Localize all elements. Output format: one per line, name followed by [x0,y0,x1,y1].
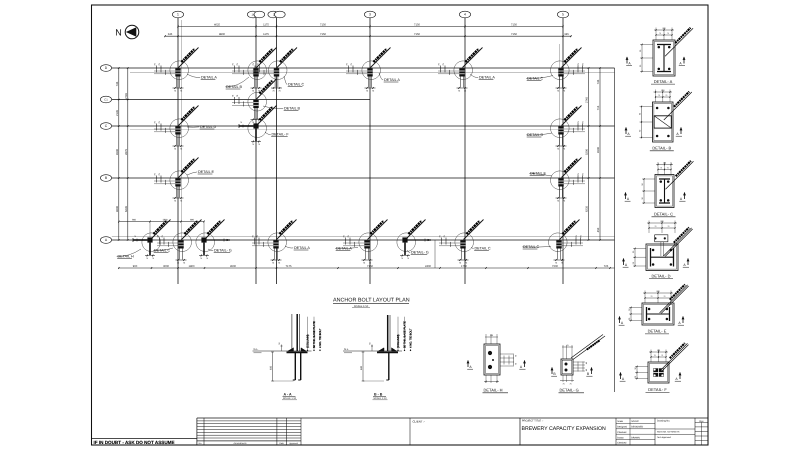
svg-text:SCALE 1:10: SCALE 1:10 [283,397,297,400]
svg-text:75: 75 [660,167,662,170]
svg-text:50 THK. BASE PLATE: 50 THK. BASE PLATE [404,321,407,348]
svg-text:4600: 4600 [116,206,119,212]
svg-text:DETAIL C: DETAIL C [475,247,492,251]
svg-text:1A: 1A [252,14,255,17]
svg-text:4 NO. TIE BOLT: 4 NO. TIE BOLT [410,328,413,348]
svg-text:745: 745 [597,79,600,84]
svg-text:No.: No. [199,442,203,445]
svg-text:3: 3 [369,13,371,17]
svg-text:75: 75 [407,257,409,260]
svg-text:600: 600 [269,365,272,370]
svg-text:75: 75 [667,32,669,35]
svg-text:4 NO. TIE BOLT: 4 NO. TIE BOLT [319,328,322,348]
svg-text:1800: 1800 [189,265,195,268]
svg-text:DETAIL- D: DETAIL- D [651,273,670,278]
svg-text:75: 75 [569,383,571,386]
svg-text:BREWERY CAPACITY EXPANSION: BREWERY CAPACITY EXPANSION [522,426,607,432]
svg-text:75: 75 [562,383,564,386]
svg-text:8800: 8800 [219,33,225,36]
svg-text:Tech Approved: Tech Approved [657,436,672,439]
svg-text:900: 900 [133,265,138,268]
svg-text:ANCHOR BOLT LAYOUT PLAN: ANCHOR BOLT LAYOUT PLAN [333,298,410,304]
svg-text:7150: 7150 [367,265,373,268]
svg-text:7150: 7150 [414,23,420,26]
svg-text:Scale: Scale [617,420,623,423]
svg-text:40: 40 [585,369,588,371]
svg-text:1: 1 [177,13,179,17]
svg-text:DETAIL D: DETAIL D [200,125,217,129]
svg-text:725: 725 [604,265,609,268]
svg-text:Checked: Checked [617,442,627,445]
svg-text:75: 75 [659,32,661,35]
svg-text:1175: 1175 [263,33,269,36]
svg-text:G.L.: G.L. [254,348,259,351]
svg-text:75: 75 [258,143,260,146]
svg-text:SCALE: SCALE [631,420,639,423]
svg-text:A - A: A - A [284,392,293,396]
svg-text:5: 5 [562,13,564,17]
svg-text:DESIGNED: DESIGNED [631,426,643,429]
svg-text:7200: 7200 [552,265,558,268]
svg-text:75: 75 [667,167,669,170]
svg-text:75: 75 [566,344,568,347]
svg-text:CLIENT :-: CLIENT :- [413,419,425,423]
svg-text:745: 745 [116,81,119,86]
svg-text:2400: 2400 [425,265,431,268]
svg-text:7150: 7150 [511,23,517,26]
svg-text:450: 450 [597,227,600,232]
svg-text:N: N [115,27,122,37]
svg-text:Drawn: Drawn [617,436,624,439]
svg-text:DETAIL- G: DETAIL- G [214,249,232,253]
svg-text:C1: C1 [104,99,108,102]
svg-text:Designed: Designed [617,426,627,429]
svg-text:75: 75 [152,257,154,260]
svg-text:DETAIL A: DETAIL A [479,76,495,80]
svg-text:7150: 7150 [414,33,420,36]
svg-text:(COLUMN): (COLUMN) [397,334,400,348]
svg-text:DETAIL A: DETAIL A [294,246,310,250]
svg-text:4500: 4500 [230,265,236,268]
svg-text:DETAIL- G: DETAIL- G [560,388,579,393]
svg-text:2745: 2745 [125,93,128,99]
svg-text:75: 75 [206,257,208,260]
svg-text:75: 75 [661,354,663,357]
svg-text:Drawing No.: Drawing No. [657,420,670,423]
svg-text:75: 75 [240,121,242,124]
svg-text:B - B: B - B [374,392,383,396]
svg-text:4500: 4500 [116,149,119,155]
svg-text:Sheet NO. NO-SHEETS: Sheet NO. NO-SHEETS [657,431,680,434]
svg-text:40: 40 [585,362,588,364]
svg-text:DETAIL E: DETAIL E [198,170,215,174]
svg-text:SCALE 1:50: SCALE 1:50 [354,305,369,308]
svg-text:75: 75 [654,354,656,357]
svg-text:7150: 7150 [320,23,326,26]
svg-text:6235: 6235 [125,206,128,212]
svg-text:DETAIL- F: DETAIL- F [648,387,667,392]
svg-text:50 THK. BASE PLATE: 50 THK. BASE PLATE [313,321,316,348]
svg-text:75: 75 [655,225,657,228]
svg-text:100: 100 [490,334,493,337]
svg-text:4: 4 [464,13,466,17]
svg-text:IF IN DOUBT - ASK DO NOT ASSUM: IF IN DOUBT - ASK DO NOT ASSUME [94,440,175,445]
svg-text:DETAIL B: DETAIL B [284,107,301,111]
svg-text:PROJECT TITLE :-: PROJECT TITLE :- [522,419,543,422]
svg-text:DETAIL- E: DETAIL- E [648,329,667,334]
svg-text:345: 345 [168,33,173,36]
svg-text:715: 715 [597,105,600,110]
svg-text:DETAIL- F: DETAIL- F [272,133,290,137]
svg-text:G.L.: G.L. [344,348,349,351]
svg-text:5200: 5200 [586,149,589,155]
svg-text:75: 75 [665,94,667,97]
svg-text:75: 75 [651,295,653,298]
svg-text:DETAIL- G: DETAIL- G [411,251,429,255]
svg-text:SCALE 1:10: SCALE 1:10 [373,397,387,400]
svg-text:DETAIL A: DETAIL A [201,76,217,80]
svg-text:3000: 3000 [163,265,169,268]
svg-text:6235: 6235 [586,206,589,212]
svg-text:2875: 2875 [125,149,128,155]
svg-text:DETAIL- C: DETAIL- C [654,212,673,217]
svg-text:1175: 1175 [263,23,269,26]
svg-text:345: 345 [564,33,569,36]
svg-text:DRAWN: DRAWN [631,436,640,439]
svg-text:DETAIL A: DETAIL A [384,78,400,82]
svg-text:2135: 2135 [116,110,119,116]
svg-text:75: 75 [658,94,660,97]
svg-text:4500: 4500 [597,147,600,153]
svg-text:75: 75 [134,235,136,238]
svg-text:75: 75 [146,257,148,260]
svg-text:DETAIL C: DETAIL C [288,83,305,87]
svg-text:600: 600 [360,365,363,370]
svg-text:75: 75 [664,295,666,298]
svg-text:DETAIL- H: DETAIL- H [484,388,503,393]
svg-text:75: 75 [200,257,202,260]
svg-text:Amendments: Amendments [234,442,248,445]
svg-text:75: 75 [401,257,403,260]
svg-text:7150: 7150 [511,33,517,36]
svg-text:2745: 2745 [586,97,589,103]
svg-text:Approved: Approved [289,442,298,445]
svg-text:7150: 7150 [320,33,326,36]
svg-text:1750: 1750 [461,265,467,268]
svg-text:4025: 4025 [214,23,220,26]
svg-text:(COLUMN): (COLUMN) [307,334,310,348]
svg-text:DETAIL- A: DETAIL- A [654,79,673,84]
svg-text:75: 75 [668,225,670,228]
svg-text:DETAIL- B: DETAIL- B [652,146,671,151]
svg-text:7175: 7175 [286,265,292,268]
svg-text:Checked: Checked [617,431,627,434]
svg-text:75: 75 [252,143,254,146]
